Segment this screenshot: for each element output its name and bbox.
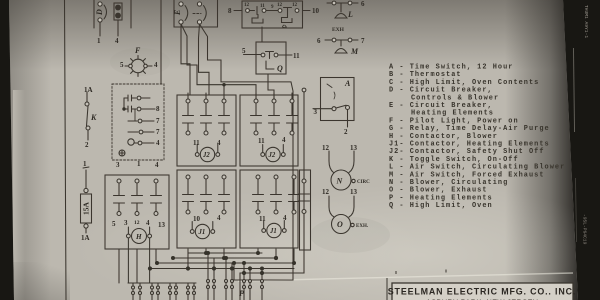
svg-text:10: 10: [193, 215, 201, 223]
svg-text:11: 11: [260, 4, 265, 9]
wire from E right pole to J2 left contactor: [199, 24, 210, 95]
J1L contact 1: [186, 175, 190, 179]
svg-text:12: 12: [322, 144, 330, 152]
bus at y=268.5: [150, 268, 294, 270]
coil J1 left: [195, 224, 209, 238]
svg-text:O: O: [337, 220, 343, 229]
H contact 3: [154, 179, 158, 183]
wire 4 from breaker D: [117, 20, 119, 36]
title block: [387, 270, 576, 300]
svg-text:4: 4: [283, 214, 287, 222]
wire from E left pole to J2 contact (staircase): [181, 24, 256, 99]
svg-text:11: 11: [293, 52, 300, 60]
coil J1 right: [267, 223, 281, 237]
svg-text:K: K: [90, 113, 97, 122]
svg-text:5: 5: [112, 220, 116, 228]
J1R contact 2: [274, 175, 278, 179]
wire from E left pole to J2 left contactor: [181, 24, 190, 95]
J1R contact 3: [292, 175, 296, 179]
svg-text:H: H: [135, 233, 142, 241]
bus at y=263: [157, 262, 294, 264]
svg-text:11: 11: [259, 215, 266, 223]
svg-text:J1: J1: [269, 228, 277, 235]
J1L contact 2: [204, 175, 208, 179]
svg-text:3: 3: [124, 219, 128, 227]
contactor H box: [105, 175, 169, 249]
svg-text:15A: 15A: [82, 201, 91, 215]
wire from relay G down to switch Q: [261, 27, 263, 42]
contactor J1 (right) box: [240, 170, 300, 248]
bus to left terminals: [128, 282, 196, 284]
svg-text:L: L: [347, 10, 353, 19]
row 4 contact: [128, 131, 138, 133]
svg-text:4: 4: [154, 61, 158, 69]
junction dots: [148, 251, 296, 275]
J1R contact 1: [256, 175, 260, 179]
svg-text:THUM1 A9Y1-1: THUM1 A9Y1-1: [583, 5, 589, 38]
drops from contactor H contacts: [119, 249, 156, 283]
air switch L: [327, 1, 358, 18]
svg-text:10: 10: [312, 7, 320, 15]
svg-text:12: 12: [134, 220, 140, 226]
svg-text:4: 4: [217, 139, 221, 147]
svg-text:-95L-P64C19: -95L-P64C19: [582, 214, 588, 245]
terminal pair drops with lugs: [132, 253, 264, 300]
high limit switch Q box: [244, 42, 293, 74]
circuit breaker D: [94, 0, 131, 28]
svg-text:3: 3: [314, 108, 318, 116]
J2L contact 2: [204, 99, 208, 103]
air switch M: [325, 38, 358, 53]
switch 1A (time switch contact): [85, 92, 90, 140]
svg-text:13: 13: [350, 188, 358, 196]
J1L contact 3: [222, 175, 226, 179]
svg-text:Q - High Limit, Oven: Q - High Limit, Oven: [389, 202, 493, 210]
svg-text:D: D: [95, 9, 104, 16]
svg-text:4: 4: [146, 219, 150, 227]
sheet border line: [65, 0, 67, 300]
right margin rotated film text: [582, 5, 590, 245]
schematic ink: [65, 0, 359, 300]
node on heater feed wire: [222, 83, 225, 86]
wire from E right pole to switch Q and heater feed: [200, 24, 294, 252]
svg-text:5: 5: [242, 47, 246, 55]
svg-text:CIRC: CIRC: [357, 180, 370, 185]
heater wire long drop: [240, 252, 304, 300]
svg-text:7: 7: [361, 37, 365, 45]
svg-text:F: F: [134, 46, 141, 55]
svg-text:EXH.: EXH.: [356, 224, 369, 229]
wire from top edge to contact block H: [160, 0, 162, 84]
paper edge highlight in dark margin: [574, 48, 575, 132]
svg-text:7: 7: [156, 117, 160, 125]
blower N: [329, 151, 355, 190]
wire 1 from breaker D: [99, 22, 101, 36]
coil J2 left: [200, 147, 214, 161]
svg-text:M: M: [350, 47, 359, 56]
contactor J2 (left) box: [177, 93, 236, 166]
wire drop to J2 left contact 3: [223, 85, 225, 93]
J2R contact 2: [272, 99, 276, 103]
drop from contactor H coil right: [149, 238, 151, 283]
coil H: [132, 229, 147, 244]
wire from switch Q down to contactor J2: [268, 74, 274, 99]
legend text block: [389, 64, 565, 211]
svg-text:P: P: [239, 289, 244, 298]
svg-text:4: 4: [156, 139, 160, 147]
wire 10 out of relay G: [303, 10, 310, 12]
contactor J1 (left) box: [177, 170, 236, 248]
svg-text:J2: J2: [202, 152, 210, 159]
bus at y=253: [188, 252, 262, 254]
row 3 contact: [128, 120, 137, 122]
bottom bus network: [119, 238, 304, 300]
svg-text:4: 4: [155, 161, 159, 169]
svg-text:3: 3: [116, 161, 120, 169]
J2L contact 1: [186, 99, 190, 103]
svg-text:6: 6: [317, 37, 321, 45]
svg-text:11: 11: [258, 137, 265, 145]
fuse 15A: [81, 167, 92, 233]
contact block (thermostat/limit contacts) upper H box: [112, 84, 164, 160]
blower O: [329, 196, 354, 234]
contactor J2 (right) box: [240, 93, 298, 166]
svg-text:1: 1: [83, 160, 87, 168]
svg-text:4: 4: [115, 37, 119, 45]
svg-text:13: 13: [158, 221, 166, 229]
drops from J1 right box: [258, 249, 294, 263]
row 5 pilot terminal: [128, 139, 134, 145]
svg-text:1: 1: [137, 160, 141, 168]
H contact 1: [117, 179, 121, 183]
svg-text:E: E: [173, 10, 182, 16]
svg-text:1A: 1A: [84, 86, 93, 94]
svg-text:12: 12: [277, 3, 283, 8]
svg-text:8: 8: [156, 105, 160, 113]
svg-text:J2: J2: [268, 152, 276, 159]
svg-text:4: 4: [282, 136, 286, 144]
J2R contact 3: [290, 99, 294, 103]
svg-text:Q: Q: [277, 64, 283, 73]
svg-text:A: A: [344, 79, 351, 88]
coil J2 right: [266, 147, 280, 161]
svg-text:11: 11: [193, 139, 200, 147]
svg-text:12: 12: [292, 3, 298, 8]
wire number labels: [81, 0, 370, 242]
drops from J1 left box: [188, 249, 224, 269]
H contact 2: [135, 179, 139, 183]
relay G box: [242, 1, 303, 28]
svg-text:STEELMAN ELECTRIC MFG. CO.. IN: STEELMAN ELECTRIC MFG. CO.. INC.: [388, 287, 576, 297]
svg-text:J1: J1: [198, 229, 206, 236]
J2L contact 3: [222, 99, 226, 103]
svg-text:12: 12: [322, 188, 330, 196]
bus at y=258: [173, 257, 276, 259]
drop from contactor H coil left: [127, 238, 129, 283]
circuit breaker E: [174, 0, 218, 27]
earth symbol: [119, 150, 125, 156]
svg-text:1A: 1A: [81, 234, 90, 242]
pilot light F: [125, 56, 152, 77]
row 2 contact: [124, 98, 136, 112]
component letter labels (hand-drawn style): [90, 9, 359, 298]
svg-text:13: 13: [350, 144, 358, 152]
J2R contact 1: [254, 99, 258, 103]
svg-text:12: 12: [244, 3, 250, 8]
svg-text:8: 8: [228, 7, 232, 15]
svg-text:6: 6: [361, 0, 365, 8]
svg-text:5: 5: [120, 61, 124, 69]
wire 8 into relay G: [234, 10, 242, 12]
row 1 contact: [124, 95, 136, 101]
svg-text:4: 4: [217, 214, 221, 222]
svg-text:2: 2: [344, 128, 348, 136]
svg-text:1: 1: [97, 37, 101, 45]
heater feed contact column: [299, 88, 311, 252]
svg-text:EXH: EXH: [332, 27, 345, 33]
svg-text:7: 7: [156, 128, 160, 136]
time switch A box: [313, 78, 354, 128]
bright crease near title block: [238, 273, 573, 281]
svg-text:2: 2: [85, 141, 89, 149]
